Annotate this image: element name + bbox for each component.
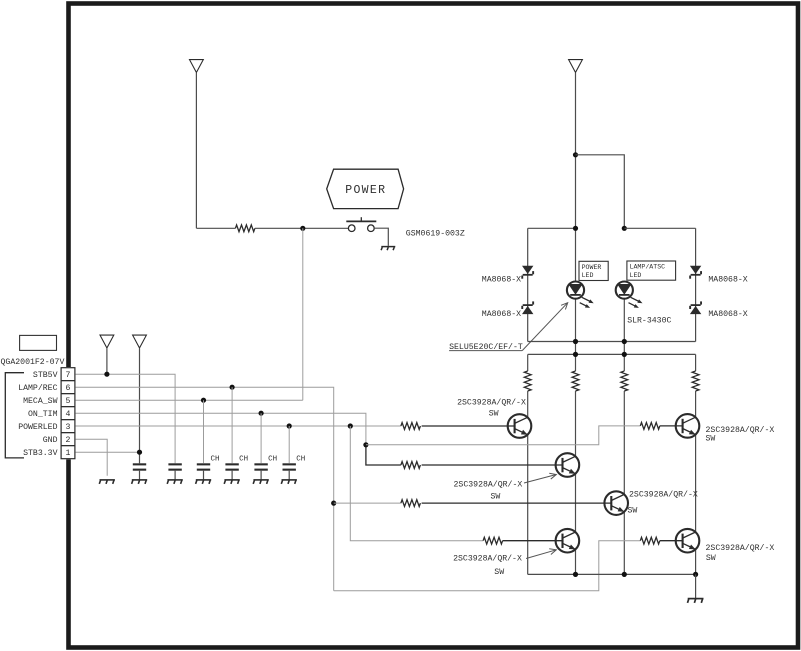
node J-bus-2 <box>622 572 627 577</box>
svg-text:2SC3928A/QR/-X: 2SC3928A/QR/-X <box>706 543 775 553</box>
svg-text:SW: SW <box>706 554 716 563</box>
node J-cath-1 <box>573 339 578 344</box>
base resistor R-Q3 <box>640 423 660 430</box>
wire LAMP/REC lower run to Q6 <box>334 541 641 591</box>
capacitor C4 <box>225 463 238 470</box>
svg-text:SW: SW <box>628 506 638 515</box>
wire top bus right segment <box>624 227 695 229</box>
wire resistor to switch <box>255 227 349 229</box>
base resistor R-Q1 <box>401 423 421 430</box>
node J-ontim-branch <box>363 442 368 447</box>
label box LAMP/ATSC LED <box>627 261 676 280</box>
transistor Q4 2SC3928A <box>604 491 628 515</box>
svg-text:6: 6 <box>66 384 71 393</box>
base resistor R-Q5 <box>483 537 503 544</box>
wire MECA_SW riser <box>302 228 304 400</box>
resistor R-col-1 <box>524 371 531 391</box>
svg-text:POWER: POWER <box>582 264 602 271</box>
wire supply branch to x=624 <box>576 155 625 229</box>
svg-text:MA8068-X: MA8068-X <box>708 275 747 284</box>
svg-text:SW: SW <box>494 568 504 577</box>
svg-text:2SC3928A/QR/-X: 2SC3928A/QR/-X <box>629 490 698 500</box>
svg-text:CH: CH <box>211 455 220 463</box>
svg-text:GND: GND <box>43 436 58 445</box>
LED LED1 POWER <box>567 282 584 299</box>
wire LAMP/REC pin6 run <box>75 387 334 591</box>
node J-led1-anode <box>573 226 578 231</box>
svg-text:QGA2001F2-07V: QGA2001F2-07V <box>1 358 65 367</box>
capacitor C5 <box>254 463 267 470</box>
component outline box (blank) <box>20 335 57 350</box>
svg-text:2SC3928A/QR/-X: 2SC3928A/QR/-X <box>454 479 523 489</box>
diode D2 MA8068-X (up) <box>521 301 534 314</box>
transistor Q2 2SC3928A <box>556 453 580 477</box>
wire ON_TIM pin4 run <box>75 413 366 445</box>
wire supply vertical x=575 <box>575 73 577 282</box>
wire switch to ground <box>374 228 388 246</box>
svg-text:3: 3 <box>66 423 71 432</box>
wire rail Q1 collector <box>527 391 529 417</box>
base resistor R-Q4 <box>401 500 421 507</box>
wire diode chain right vertical <box>695 228 697 341</box>
ground G-C2 <box>167 480 183 484</box>
svg-text:LED: LED <box>630 272 642 279</box>
wire rail Q4 emitter to bus <box>623 512 625 575</box>
wire R-Q6 to base <box>660 540 683 542</box>
svg-text:GSM0619-003Z: GSM0619-003Z <box>406 230 465 239</box>
svg-text:CH: CH <box>268 455 277 463</box>
wire R-Q3 to base <box>660 425 683 427</box>
ground G-switch <box>381 247 395 251</box>
svg-text:CH: CH <box>296 455 305 463</box>
svg-text:MA8068-X: MA8068-X <box>482 275 521 284</box>
wire power-net horizontal <box>196 227 235 229</box>
wire top bus left segment <box>528 227 576 229</box>
wire power-net vertical <box>195 73 197 229</box>
ground G-C5 <box>253 480 269 484</box>
LED LED2 LAMP/ATSC <box>616 282 633 299</box>
wire STB3.3V pin1 run <box>75 451 140 453</box>
label box POWER LED <box>579 261 608 280</box>
svg-text:2SC3928A/QR/-X: 2SC3928A/QR/-X <box>457 397 526 407</box>
node J-bus-3 <box>693 572 698 577</box>
wire ON_TIM branch to Q2 resistor <box>366 445 401 465</box>
transistor Q6 2SC3928A <box>676 529 700 553</box>
node J-pin7-ant <box>104 372 109 377</box>
node J-pin1-ant <box>137 450 142 455</box>
bracket for connector <box>5 373 24 458</box>
wire LED2 cathode vertical <box>623 299 625 371</box>
ground G-pin2 <box>99 480 115 484</box>
svg-text:MECA_SW: MECA_SW <box>23 397 57 406</box>
wire rail Q4 collector <box>623 391 625 494</box>
wire stub right resistor top <box>695 354 697 371</box>
svg-text:SW: SW <box>706 435 716 444</box>
wire R-Q2 to base <box>422 464 563 466</box>
node J-pin6-cap <box>230 385 235 390</box>
wire R-Q1 to base <box>422 425 515 427</box>
wire rail Q6 emitter to bus <box>695 549 697 574</box>
svg-text:MA8068-X: MA8068-X <box>708 310 747 319</box>
wire rail Q2 collector <box>575 391 577 456</box>
svg-text:7: 7 <box>66 371 71 380</box>
ground G-C1 <box>132 480 148 484</box>
resistor R-power <box>235 225 255 232</box>
ground G-main <box>688 599 704 603</box>
svg-text:POWER: POWER <box>345 184 386 197</box>
net flag POWER hexagon <box>327 169 404 208</box>
node J-supply-branch <box>573 152 578 157</box>
base resistor R-Q6 <box>640 537 660 544</box>
svg-text:5: 5 <box>66 397 71 406</box>
wire stub left resistor top <box>527 354 529 371</box>
ground G-C6 <box>281 480 297 484</box>
node J-switch <box>300 226 305 231</box>
wire POWERLED pin3 run <box>75 425 401 427</box>
transistor Q5 2SC3928A <box>556 529 580 553</box>
antenna arrow A1 <box>100 335 114 348</box>
wire cap C4 riser <box>231 387 233 463</box>
node J-cath-2 <box>622 339 627 344</box>
wire emitter bus <box>528 573 696 575</box>
node J-led2-anode <box>622 226 627 231</box>
wire cap C3 riser <box>203 400 205 463</box>
wire LAMP/REC branch to Q4 <box>334 502 401 504</box>
capacitor C1 <box>133 463 146 470</box>
svg-text:LAMP/REC: LAMP/REC <box>18 383 57 393</box>
transistor Q3 2SC3928A <box>676 414 700 438</box>
wire cap C6 riser <box>288 426 290 463</box>
connector CN1 QGA2001F2-07V <box>60 367 75 459</box>
wire POWERLED branch to Q5 <box>350 426 483 541</box>
svg-text:SW: SW <box>489 409 499 418</box>
svg-text:2SC3928A/QR/-X: 2SC3928A/QR/-X <box>453 554 522 564</box>
svg-text:2SC3928A/QR/-X: 2SC3928A/QR/-X <box>706 425 775 435</box>
wire rail Q3-Q6 link <box>695 434 697 532</box>
antenna arrow A3 (power net) <box>190 60 204 73</box>
svg-text:1: 1 <box>66 449 71 458</box>
resistor R-col-3 <box>621 371 628 391</box>
wire antenna A1 stem <box>106 348 108 374</box>
diode D1 MA8068-X (down) <box>521 266 534 279</box>
wire R-Q5 to base <box>503 540 563 542</box>
svg-text:CH: CH <box>239 455 248 463</box>
node J-lamprec-branch <box>331 501 336 506</box>
svg-text:4: 4 <box>66 410 71 419</box>
wire bus to ground <box>695 574 697 598</box>
pushbutton switch SW1 <box>346 217 376 231</box>
base resistor R-Q2 <box>401 462 421 469</box>
wire MECA_SW pin5 run <box>75 399 303 401</box>
transistor Q1 2SC3928A <box>508 414 532 438</box>
svg-text:POWERLED: POWERLED <box>18 423 57 432</box>
diode D3 MA8068-X (down) <box>689 266 702 279</box>
resistor R-col-2 <box>572 371 579 391</box>
svg-text:SW: SW <box>491 493 501 502</box>
wire rail Q2-Q5 link <box>575 474 577 532</box>
diode D4 MA8068-X (up) <box>689 301 702 314</box>
node J-bus-1 <box>573 572 578 577</box>
wire cathode bus y=341 <box>528 341 696 343</box>
svg-text:STB5V: STB5V <box>33 371 58 380</box>
wire diode chain left vertical <box>527 228 529 341</box>
resistor R-col-4 <box>692 371 699 391</box>
ground G-C3 <box>196 480 212 484</box>
wire GND pin2 run <box>75 439 107 476</box>
wire resistor bus y=354 <box>528 353 696 355</box>
antenna arrow A2 <box>133 335 147 348</box>
svg-text:LAMP/ATSC: LAMP/ATSC <box>630 264 666 271</box>
svg-text:LED: LED <box>582 272 594 279</box>
wire R-Q4 to base <box>422 502 612 504</box>
svg-text:STB3.3V: STB3.3V <box>23 449 57 458</box>
node J-res-1 <box>573 352 578 357</box>
ground G-C4 <box>224 480 240 484</box>
capacitor C3 <box>197 463 210 470</box>
node J-res-2 <box>622 352 627 357</box>
svg-text:SLR-3430C: SLR-3430C <box>627 317 671 326</box>
node J-pin3-cap <box>287 423 292 428</box>
wire STB5V pin7 run <box>75 374 175 463</box>
wire rail Q3 collector <box>695 391 697 417</box>
node J-pin4-cap <box>259 411 264 416</box>
wire rail Q1 emitter to bus <box>527 435 529 575</box>
wire ON_TIM branch to Q3 <box>366 426 640 445</box>
wire cap C5 riser <box>260 413 262 463</box>
svg-text:2: 2 <box>66 436 71 445</box>
capacitor C2 <box>168 463 181 470</box>
node J-pin3-branch <box>348 423 353 428</box>
svg-text:MA8068-X: MA8068-X <box>482 310 521 319</box>
svg-text:ON_TIM: ON_TIM <box>28 410 58 419</box>
capacitor C6 <box>283 463 296 470</box>
wire LED1 cathode vertical <box>575 299 577 371</box>
node J-pin5-cap <box>201 398 206 403</box>
wire antenna A2 stem to cap C1 <box>139 348 141 463</box>
antenna arrow A4 (LED supply) <box>569 60 583 73</box>
wire rail Q5 emitter to bus <box>575 549 577 574</box>
